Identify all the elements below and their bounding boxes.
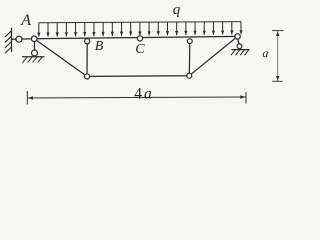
svg-text:a: a	[262, 46, 268, 60]
svg-text:q: q	[173, 2, 181, 18]
svg-text:B: B	[95, 39, 104, 54]
svg-text:A: A	[20, 12, 31, 29]
svg-text:C: C	[135, 42, 145, 57]
svg-text:4a: 4a	[134, 86, 154, 103]
